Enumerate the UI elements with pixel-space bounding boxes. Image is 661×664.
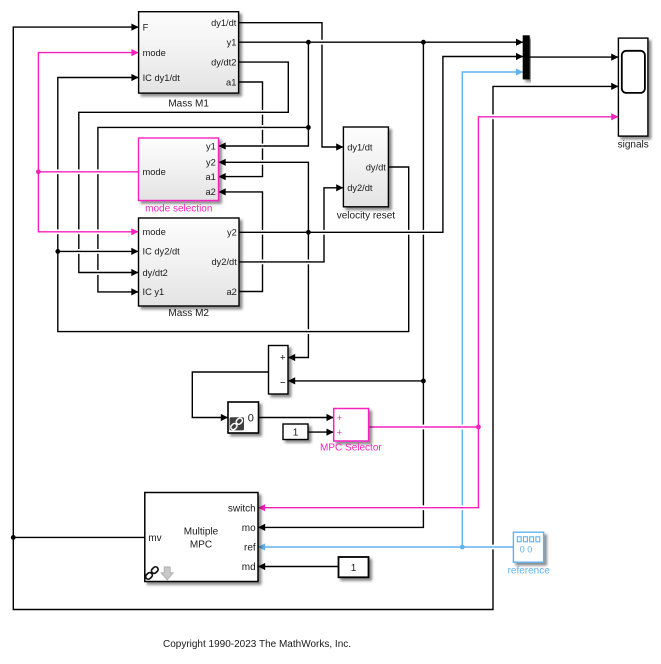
constant 1 <box>283 424 308 440</box>
wire junction up to F input of Mass M1 <box>13 27 138 537</box>
svg-text:+: + <box>337 428 342 438</box>
arrowhead compare block input <box>221 414 228 421</box>
wire magenta branch down to switch input of Multiple MPC <box>258 427 478 508</box>
svg-text:ref: ref <box>244 543 256 554</box>
svg-text:mode: mode <box>143 227 166 237</box>
svg-text:+: + <box>280 353 286 364</box>
svg-text:dy2/dt: dy2/dt <box>211 257 237 267</box>
subsystem Mass M2 <box>139 218 240 306</box>
wire y2 branch up to mode selection y2 input <box>219 162 309 232</box>
arrowhead mode input Mass M2 <box>131 228 138 235</box>
arrowhead Mux input 3 <box>516 68 523 75</box>
svg-text:1: 1 <box>351 563 357 574</box>
wire a1 output Mass M1 to a1 input mode selection <box>219 82 263 177</box>
svg-text:y1: y1 <box>206 141 216 151</box>
svg-text:y2: y2 <box>206 158 216 168</box>
arrowhead sum plus input <box>288 354 295 361</box>
junction magenta mode net <box>36 169 41 174</box>
subsystem velocity reset <box>343 127 388 207</box>
mux signals <box>523 36 529 79</box>
wire y1 branch down right side to sum minus and mo input <box>258 42 423 527</box>
svg-text:y1: y1 <box>227 38 237 48</box>
junction mv line <box>11 535 16 540</box>
arrowhead dy/dt2 input Mass M2 <box>131 269 138 276</box>
arrowhead a2 input mode selection <box>219 188 226 195</box>
svg-text:mode selection: mode selection <box>145 204 212 215</box>
library link badge chain icon <box>145 566 160 581</box>
junction y1 line to sum/mo branch <box>421 40 426 45</box>
wire dy2/dt output Mass M2 to velocity reset input 2 <box>239 188 343 262</box>
update-needed gray arrow badge <box>161 567 173 580</box>
svg-text:switch: switch <box>228 503 256 514</box>
arrowhead mode input Mass M1 <box>131 49 138 56</box>
svg-text:MPC: MPC <box>190 540 212 551</box>
wire a2 output Mass M2 to a2 input mode selection <box>219 192 263 292</box>
svg-text:a1: a1 <box>205 172 215 182</box>
arrowhead IC dy2/dt input Mass M2 <box>131 248 138 255</box>
arrowhead sum minus input <box>288 377 295 384</box>
wire y2 output Mass M2 to Mux input 2 <box>239 57 523 233</box>
scope signals <box>618 38 648 136</box>
svg-text:dy/dt2: dy/dt2 <box>211 57 236 67</box>
svg-text:Mass M1: Mass M1 <box>168 99 209 110</box>
arrowhead F input Mass M1 <box>131 24 138 31</box>
junction sum minus / mo <box>421 379 426 384</box>
svg-text:IC dy2/dt: IC dy2/dt <box>143 247 181 257</box>
svg-text:dy2/dt: dy2/dt <box>347 183 373 193</box>
arrowhead y2 input mode selection <box>219 159 226 166</box>
arrowhead scope input 1 <box>611 54 618 61</box>
MPC Selector block <box>334 409 369 442</box>
wire branch to IC dy2/dt input Mass M2 <box>58 250 139 252</box>
arrowhead IC y1 input Mass M2 <box>131 288 138 295</box>
svg-text:−: − <box>280 377 286 388</box>
wire junction down and along bottom to scope input 2 <box>13 86 618 609</box>
svg-text:signals: signals <box>618 139 649 150</box>
wire sum output to compare-to-zero block input <box>192 372 268 418</box>
arrowhead MPC Selector input 2 <box>327 429 334 436</box>
svg-text:dy1/dt: dy1/dt <box>211 18 237 28</box>
wire magenta MPC Selector output <box>369 426 479 428</box>
svg-text:mv: mv <box>148 533 161 544</box>
scope screen icon <box>622 51 645 93</box>
svg-text:F: F <box>143 22 149 32</box>
wire sum minus input branch <box>288 380 423 382</box>
svg-text:dy/dt2: dy/dt2 <box>143 268 168 278</box>
svg-text:mo: mo <box>242 523 256 534</box>
svg-text:mode: mode <box>143 48 166 58</box>
arrowhead md input Multiple MPC <box>258 563 265 570</box>
arrowhead dy2/dt input velocity reset <box>336 184 343 191</box>
svg-text:0: 0 <box>248 412 254 424</box>
junction y1 branch to IC y1 <box>306 125 311 130</box>
wire magenta mode output of mode selection to mode inputs of Mass M1 and Mass M2 <box>38 171 138 173</box>
svg-text:Multiple: Multiple <box>184 527 219 538</box>
arrowhead Mux input 2 <box>516 53 523 60</box>
svg-text:md: md <box>242 562 256 573</box>
junction velocity reset line to IC dy2/dt <box>55 249 60 254</box>
svg-text:a1: a1 <box>226 77 236 87</box>
arrowhead dy1/dt input velocity reset <box>336 143 343 150</box>
arrowhead scope input 3 <box>611 113 618 120</box>
constant 1 for md <box>339 557 369 577</box>
Multiple MPC block <box>145 493 258 582</box>
svg-text:velocity reset: velocity reset <box>337 211 396 222</box>
svg-text:IC dy1/dt: IC dy1/dt <box>143 73 181 83</box>
svg-text:mode: mode <box>143 167 166 177</box>
wire y1 output Mass M1 to Mux input 1 <box>239 41 524 43</box>
subsystem mode selection <box>139 138 219 201</box>
wire blue reference output to ref input of Multiple MPC <box>258 546 513 548</box>
svg-text:dy/dt: dy/dt <box>366 162 387 172</box>
svg-text:0 0: 0 0 <box>520 545 533 555</box>
wire compare block output to MPC Selector input 1 <box>259 417 334 419</box>
wire y2 branch down to sum plus input <box>288 232 308 357</box>
arrowhead ref input Multiple MPC <box>258 543 265 550</box>
arrowhead y1 input mode selection <box>219 142 226 149</box>
arrowhead scope input 2 <box>611 83 618 90</box>
reference icon squares <box>517 537 521 542</box>
arrowhead Mux input 1 <box>516 39 523 46</box>
arrowhead a1 input mode selection <box>219 173 226 180</box>
svg-text:a2: a2 <box>205 187 215 197</box>
sum block <box>269 346 289 395</box>
wire y1 branch to IC y1 input of Mass M2 <box>98 127 309 292</box>
junction blue reference line <box>460 545 465 550</box>
library link badge <box>230 417 244 430</box>
reference signal editor block <box>513 532 543 562</box>
wire mv output of Multiple MPC to junction <box>13 536 145 538</box>
svg-text:y2: y2 <box>227 228 237 238</box>
wire dy/dt2 output Mass M1 to dy/dt2 input Mass M2 <box>79 62 288 272</box>
svg-text:Copyright 1990-2023 The MathWo: Copyright 1990-2023 The MathWorks, Inc. <box>163 639 351 650</box>
wire Constant 1 output to MPC Selector input 2 <box>308 431 334 433</box>
arrowhead IC dy1/dt input Mass M1 <box>131 74 138 81</box>
svg-text:reference: reference <box>508 566 551 577</box>
wire dy/dt output velocity reset to IC dy1/dt input Mass M1 <box>58 78 409 332</box>
arrowhead mo input Multiple MPC <box>258 524 265 531</box>
wire Mux output to scope input 1 <box>529 56 618 58</box>
compare to zero block <box>228 402 259 433</box>
svg-text:MPC Selector: MPC Selector <box>320 443 382 454</box>
wire dy1/dt output Mass M1 to velocity reset input 1 <box>239 23 344 147</box>
svg-text:Mass M2: Mass M2 <box>168 308 209 319</box>
svg-text:dy1/dt: dy1/dt <box>347 142 373 152</box>
svg-text:1: 1 <box>293 428 299 439</box>
svg-text:+: + <box>337 413 342 423</box>
wire Constant 1 to md input of Multiple MPC <box>258 566 339 568</box>
svg-text:a2: a2 <box>226 287 236 297</box>
arrowhead MPC Selector input 1 <box>327 414 334 421</box>
wire magenta branch up to scope input 3 <box>478 117 618 427</box>
wire y1 branch down to mode selection y1 input <box>219 42 309 146</box>
junction y1 line to mode selection branch <box>306 40 311 45</box>
junction magenta selector output <box>476 425 481 430</box>
junction y2 line four-way <box>306 230 311 235</box>
subsystem Mass M1 <box>139 12 239 93</box>
wire blue branch up to Mux input 3 <box>462 72 523 547</box>
arrowhead switch input Multiple MPC <box>258 504 265 511</box>
svg-text:IC y1: IC y1 <box>143 287 165 297</box>
